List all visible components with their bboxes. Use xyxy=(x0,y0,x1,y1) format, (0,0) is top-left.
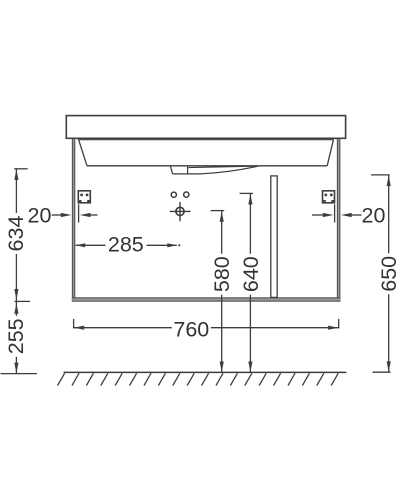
screw holes pair xyxy=(171,192,189,197)
dimension 20 left: arrows and leader xyxy=(52,213,98,217)
svg-text:580: 580 xyxy=(210,256,234,292)
dimension 20 right: extension line xyxy=(334,204,336,222)
dimension 580 xyxy=(211,211,225,373)
svg-text:20: 20 xyxy=(28,203,52,227)
svg-text:634: 634 xyxy=(4,216,28,252)
cabinet left side panel xyxy=(72,139,75,302)
countertop xyxy=(66,116,345,139)
svg-text:285: 285 xyxy=(108,233,144,257)
cabinet bottom panel xyxy=(72,297,340,301)
drain slope upper line xyxy=(189,166,259,168)
drain slope lower curve xyxy=(200,166,259,174)
svg-text:640: 640 xyxy=(239,256,263,292)
dimension 640 xyxy=(240,193,253,372)
dimension 650 xyxy=(371,175,391,372)
dimension 634 label xyxy=(4,216,28,252)
dimension 640 label xyxy=(239,256,263,292)
dimension 255 label xyxy=(4,318,28,354)
dimension 580 label xyxy=(210,256,234,292)
dimension 255 xyxy=(1,301,38,373)
dimension 760 xyxy=(74,319,339,330)
svg-text:760: 760 xyxy=(173,317,209,341)
drain fitting bottom xyxy=(173,173,200,175)
mounting bracket left xyxy=(78,191,90,203)
mounting bracket right xyxy=(323,191,335,203)
dimension 634 xyxy=(14,169,30,302)
dimension 20 right: arrows and leader xyxy=(312,213,362,217)
dimension 20 left: extension line xyxy=(78,204,80,222)
washbasin bottom line xyxy=(87,165,327,167)
washbasin right slant xyxy=(327,140,333,166)
floor hatching xyxy=(58,373,339,385)
cabinet right side panel xyxy=(337,139,340,302)
drain axis crosshair xyxy=(170,202,191,221)
svg-text:255: 255 xyxy=(4,318,28,354)
svg-text:650: 650 xyxy=(377,256,400,292)
svg-text:20: 20 xyxy=(362,203,386,227)
dimension 650 label xyxy=(377,256,400,292)
dimension 285 xyxy=(76,243,181,247)
washbasin left slant xyxy=(79,140,87,166)
cabinet door gap (narrow vertical recess) xyxy=(271,176,277,298)
floor line xyxy=(64,371,347,373)
drain fitting left edge xyxy=(170,166,172,174)
drain fitting right edge xyxy=(187,166,189,174)
washbasin rim line xyxy=(78,139,334,141)
